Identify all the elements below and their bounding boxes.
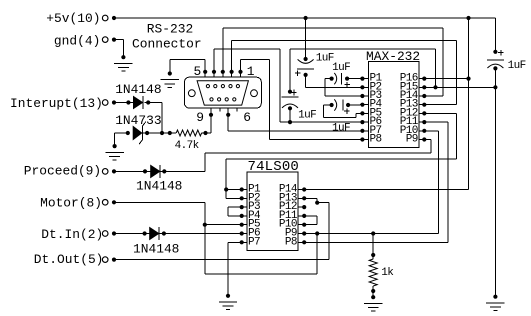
74LS00 P3-P4 bracket	[228, 206, 242, 208]
svg-text:Dt.In(2): Dt.In(2)	[41, 227, 103, 242]
resistor R2 1k	[369, 259, 377, 286]
svg-text:Connector: Connector	[132, 36, 202, 51]
IC U1 MAX-232 box	[369, 61, 420, 147]
svg-text:Interupt(13): Interupt(13)	[10, 96, 103, 111]
IC U2 74LS00 box	[247, 172, 298, 250]
ground G2	[168, 71, 172, 75]
svg-text:9: 9	[196, 110, 204, 125]
wire dt.out to 74LS00 P12/P13	[114, 259, 329, 261]
wire 1k to ground	[372, 286, 374, 297]
svg-text:+5v(10): +5v(10)	[46, 11, 100, 26]
MAX-232 left stub P8	[362, 139, 368, 141]
svg-text:Proceed(9): Proceed(9)	[24, 164, 101, 179]
terminal Interupt(13)	[102, 100, 108, 106]
74LS00 right stub P8	[298, 241, 304, 243]
svg-text:1N4733: 1N4733	[115, 113, 161, 128]
node cap3/P6 junction	[288, 120, 292, 124]
wire C4 right to MAX P4	[348, 104, 362, 106]
terminal Dt.Out(5)	[102, 257, 108, 263]
wire zener ground corner	[115, 132, 128, 134]
svg-text:1N4148: 1N4148	[136, 179, 182, 194]
74LS00 left stub P3	[242, 206, 247, 208]
svg-text:74LS00: 74LS00	[248, 159, 300, 175]
svg-text:P8: P8	[285, 236, 297, 248]
svg-text:4.7k: 4.7k	[175, 140, 200, 152]
svg-text:1uF: 1uF	[508, 60, 526, 72]
capacitor C1 1uF (top)	[305, 18, 307, 59]
DB9 top pin stubs	[204, 72, 206, 77]
wire MAX P9 to Proceed	[424, 139, 431, 141]
MAX-232 left stub P4	[362, 104, 368, 106]
wire interrupt to diode	[114, 102, 134, 104]
capacitor C5 1uF (far right)	[494, 18, 496, 52]
node motor/P5 junction	[203, 223, 207, 227]
node 74LS00 P9 junction	[315, 231, 319, 235]
74LS00 left stub P6	[242, 233, 247, 235]
svg-text:P9: P9	[406, 134, 418, 146]
wire diode to proceed riser	[162, 169, 166, 173]
wire C2 right to MAX P1	[347, 78, 362, 80]
74LS00 left stub P5	[242, 224, 247, 226]
74LS00 right stub P14	[298, 189, 304, 191]
ground G4	[226, 294, 230, 298]
wire proceed to diode	[114, 170, 151, 172]
wire motor	[114, 201, 205, 203]
MAX-232 left stub P1	[362, 78, 368, 80]
svg-text:5: 5	[194, 64, 202, 79]
wire C1 to MAX P2	[305, 75, 307, 87]
svg-text:Motor(8): Motor(8)	[40, 196, 102, 211]
node 1k junction	[371, 231, 375, 235]
diode D1 1N4148	[134, 97, 143, 109]
wire zener to resistor	[142, 132, 169, 134]
terminal Dt.In(2)	[102, 231, 108, 237]
DB9 bottom stubs short	[219, 108, 221, 112]
DB9 pin holes bottom row	[210, 98, 213, 101]
wire C3 bottom to P6 row	[289, 108, 291, 122]
MAX-232 right stub P12	[419, 112, 424, 114]
74LS00 P7 to ground	[228, 241, 242, 243]
74LS00 left stub P1	[242, 189, 247, 191]
ground G1	[121, 55, 125, 59]
wire DB9 pin5 to ground	[204, 59, 206, 72]
wire gnd(4) to ground	[114, 39, 123, 41]
DB9 connector body	[185, 77, 262, 108]
wire MAX P10 to 74LS00 P9	[424, 130, 438, 132]
74LS00 right stub P11	[298, 215, 304, 217]
MAX-232 left stub P6	[362, 121, 368, 123]
wire C5/gnd down	[494, 87, 496, 296]
74LS00 right stub P10	[298, 224, 304, 226]
DB9 mounting holes	[188, 90, 195, 97]
MAX-232 right stub P16	[419, 78, 424, 80]
74LS00 right stub P9	[298, 233, 304, 235]
wire C2 left loop to MAX P3	[325, 78, 331, 80]
MAX-232 right stub P9	[419, 139, 424, 141]
MAX-232 right stub P11	[419, 121, 424, 123]
svg-text:6: 6	[243, 110, 251, 125]
ground G6	[493, 295, 497, 299]
wire 74LS00 P2 link	[226, 197, 242, 199]
MAX-232 left stub P5	[362, 112, 368, 114]
ground G3	[113, 144, 117, 148]
DB9 pin6row stub to MAX P7	[227, 108, 229, 131]
svg-text:1k: 1k	[381, 267, 394, 279]
MAX-232 left stub P7	[362, 130, 368, 132]
wire resistor to DB9 pin9	[203, 131, 207, 135]
terminal gnd(4)	[102, 37, 108, 43]
capacitor C4 1uF (P4-P5)	[330, 103, 334, 107]
74LS00 P11-P10 bracket	[304, 215, 317, 217]
wire MAX P12 to 74LS00 P1	[424, 112, 456, 114]
svg-text:RS-232: RS-232	[147, 21, 193, 36]
svg-text:1N4148: 1N4148	[133, 241, 179, 256]
DB9 pin9 stub	[210, 108, 212, 133]
diode D3 1N4148	[150, 228, 159, 240]
ground G5	[371, 295, 375, 299]
wire diode to riser	[146, 100, 150, 104]
MAX-232 right stub P15	[419, 86, 424, 88]
wire net B riser	[290, 48, 436, 50]
DB9 pin holes top row	[206, 85, 209, 88]
MAX-232 left stub P3	[362, 95, 368, 97]
74LS00 right stub P12	[298, 206, 304, 208]
capacitor C2 1uF (P1-P3)	[330, 77, 334, 81]
zener Z1 1N4733	[126, 131, 130, 135]
svg-text:gnd(4): gnd(4)	[54, 34, 100, 49]
wire MAX P16 to +5v	[424, 78, 468, 80]
resistor R1 4.7k	[170, 132, 176, 134]
wire +5v down to 74LS00 P14	[468, 79, 470, 190]
wire MAX P11 to 74LS00 P8	[424, 121, 448, 123]
svg-text:P7: P7	[248, 236, 260, 248]
svg-text:MAX-232: MAX-232	[366, 49, 420, 64]
74LS00 left stub P7	[242, 241, 247, 243]
svg-text:1N4148: 1N4148	[115, 82, 161, 97]
MAX-232 right stub P14	[419, 95, 424, 97]
74LS00 right stub P13	[298, 197, 304, 199]
svg-text:P8: P8	[370, 134, 382, 146]
svg-text:1uF: 1uF	[332, 62, 350, 74]
wire MAX P15 ground row	[424, 86, 495, 88]
terminal Motor(8)	[102, 200, 108, 206]
svg-text:1: 1	[247, 64, 255, 79]
74LS00 left stub P4	[242, 215, 247, 217]
wire C4 left loop to MAX P5	[324, 104, 332, 106]
wire dt.in to diode	[114, 233, 150, 235]
wire DB9 pin2 to MAX P13	[231, 40, 233, 72]
74LS00 left stub P2	[242, 197, 247, 199]
wire DB9 pin4 to MAX P6	[213, 49, 215, 72]
svg-text:1uF: 1uF	[298, 110, 316, 122]
svg-text:Dt.Out(5): Dt.Out(5)	[34, 252, 104, 267]
terminal +5v(10)	[102, 15, 108, 21]
MAX-232 right stub P10	[419, 130, 424, 132]
DB9 top pin dots	[203, 70, 207, 74]
capacitor C3 1uF (net B)	[289, 49, 291, 92]
wire diode to 74LS00 P6	[162, 231, 166, 235]
74LS00 P13-P12 join	[304, 197, 317, 199]
svg-text:1uF: 1uF	[332, 123, 350, 135]
wire motor branch to 74LS00 P9	[205, 273, 317, 275]
terminal Proceed(9)	[102, 169, 108, 175]
diode D2 1N4148	[151, 165, 160, 177]
wire +5v bus	[114, 17, 495, 19]
MAX-232 right stub P13	[419, 104, 424, 106]
wire DB9 pin1 to MAX P8	[240, 59, 242, 72]
node 74LS00 P1 junction	[224, 187, 228, 191]
wire DB9 pin3 to MAX P14	[222, 28, 224, 72]
MAX-232 left stub P2	[362, 86, 368, 88]
